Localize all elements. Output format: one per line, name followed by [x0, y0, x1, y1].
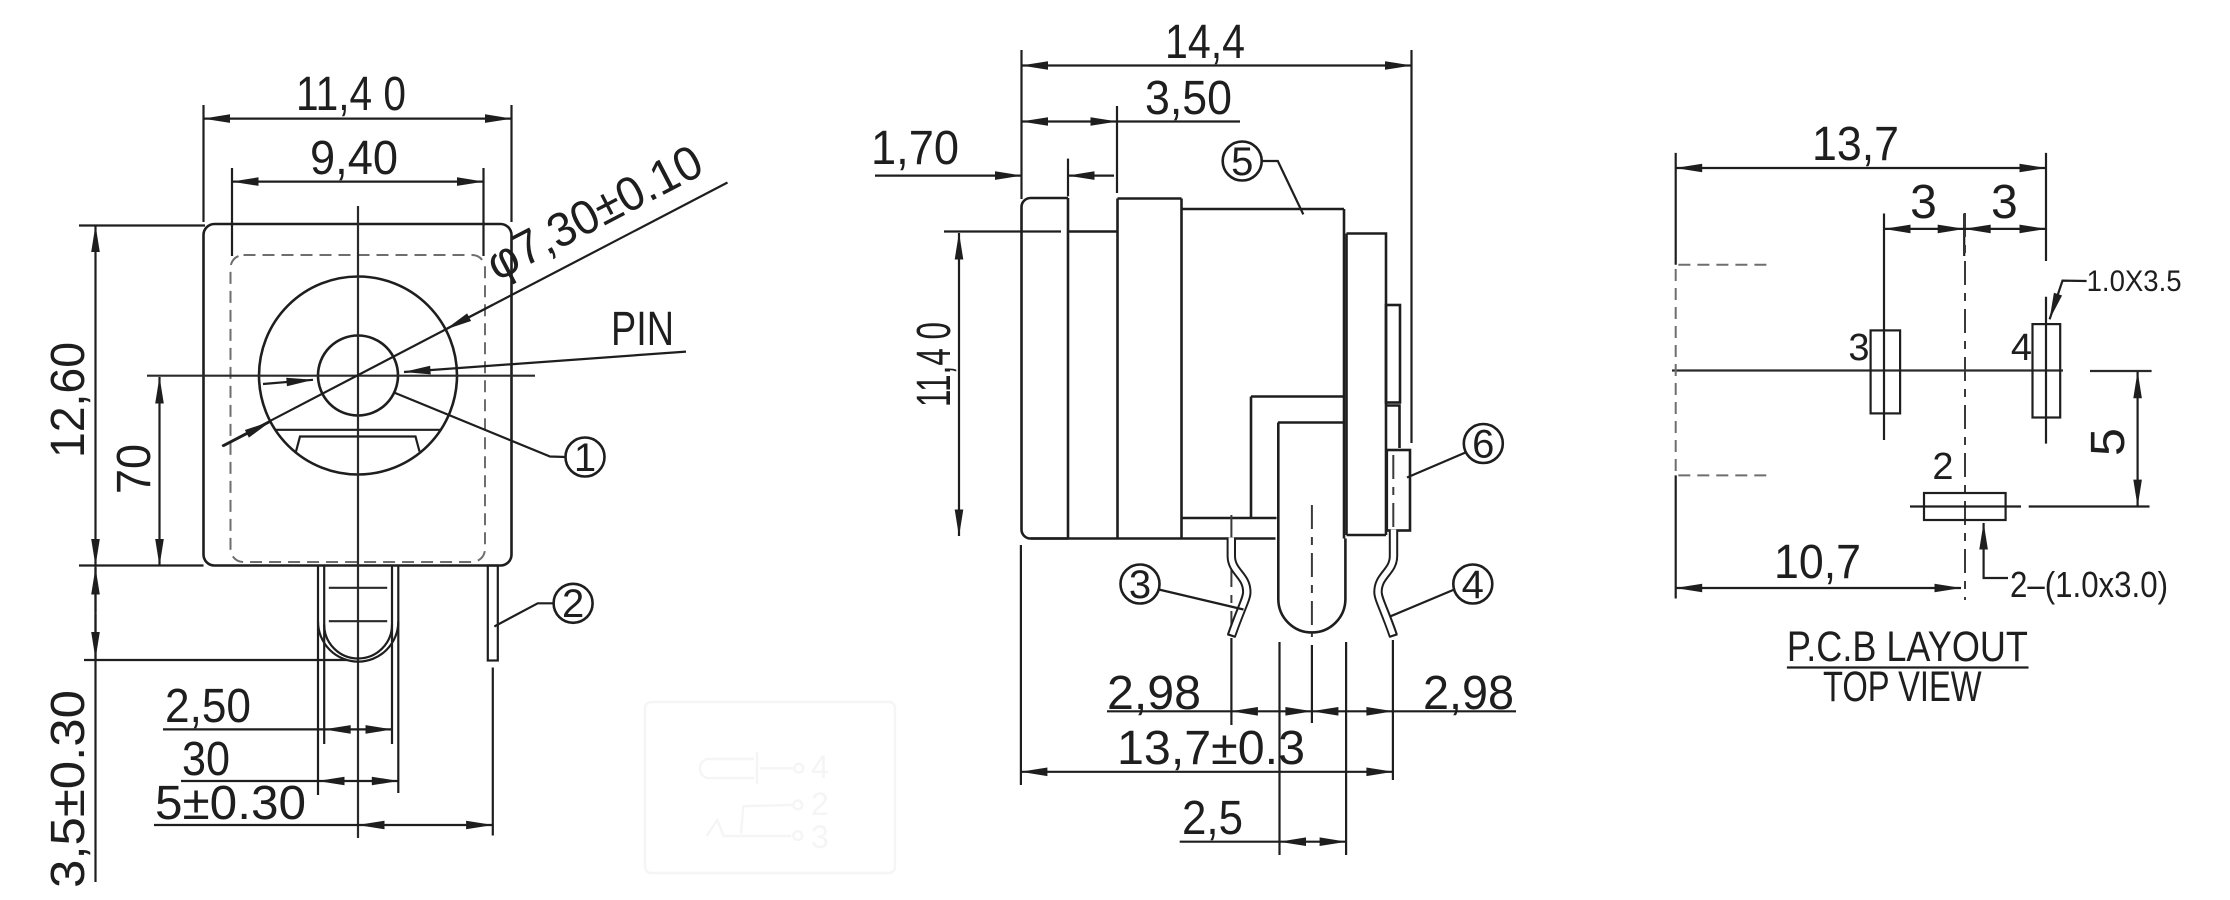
svg-text:2–(1.0x3.0): 2–(1.0x3.0): [2010, 564, 2168, 605]
dim 3,50 ext: [1116, 106, 1118, 193]
pad4 centerline lower: [2045, 297, 2047, 444]
dim 1,70 ext: [1067, 159, 1069, 197]
svg-text:5: 5: [2082, 428, 2135, 456]
main body right edge: [1343, 209, 1346, 539]
pad 2: [1924, 493, 2006, 520]
dim 2,5 ext right: [1345, 642, 1347, 855]
mid tick: [1963, 214, 1965, 257]
balloon 4: [1453, 565, 1492, 604]
front pin outer right side: [397, 566, 399, 794]
svg-text:TOP VIEW: TOP VIEW: [1823, 663, 1982, 711]
balloon 3 leader: [1159, 590, 1244, 610]
front pin inner left side: [323, 566, 325, 745]
svg-text:9,40: 9,40: [310, 132, 398, 185]
center pin right edge: [1344, 539, 1347, 600]
balloon 2 leader: [494, 603, 553, 626]
balloon 1: [566, 438, 605, 477]
block3 top: [1118, 197, 1182, 200]
dim 5 pcb ext: [2029, 505, 2150, 507]
front pin cross line 2: [329, 620, 387, 622]
center pin left edge: [1277, 423, 1280, 600]
callout 2-(1.0x3.0) leader: [1984, 523, 2008, 578]
svg-text:1: 1: [574, 436, 596, 480]
side flange outline: [1022, 198, 1069, 539]
dim 5 arrows: [358, 824, 493, 826]
pad3 centerline: [1883, 214, 1885, 441]
front pin inner arc: [324, 625, 392, 659]
faint ghost schematic watermark: [645, 702, 895, 873]
dim 10,7 line: [1676, 587, 1961, 589]
svg-text:2,5: 2,5: [1182, 792, 1243, 845]
balloon 5: [1223, 142, 1262, 181]
body inner bottom: [1182, 517, 1277, 520]
dim 13,7 line: [1021, 771, 1393, 773]
dim 2,50 leader: [163, 728, 324, 730]
dim 9,40 line: [232, 181, 484, 183]
dim 30 leader: [181, 780, 318, 782]
svg-text:2: 2: [562, 582, 584, 626]
body bottom line: [1031, 537, 1276, 540]
inner step vertical: [1250, 397, 1253, 519]
barrel circle: [259, 277, 457, 475]
block2 top: [1068, 230, 1118, 233]
front view body outline: [204, 224, 512, 566]
balloon 6: [1464, 424, 1503, 463]
dim 2,50 arrows: [324, 728, 392, 730]
dim 3,5 arrow up: [94, 568, 96, 612]
svg-text:5: 5: [1231, 140, 1253, 184]
balloon 2: [554, 584, 593, 623]
front pin outer arc: [318, 622, 398, 662]
svg-text:4: 4: [811, 749, 829, 785]
flange right edge: [1067, 198, 1070, 539]
center pin bottom arc: [1278, 599, 1345, 632]
dim 2,5 ext left: [1278, 642, 1280, 855]
svg-text:3,50: 3,50: [1145, 72, 1232, 125]
balloon 3: [1121, 565, 1160, 604]
pad2 centerline horizontal: [1910, 505, 2021, 507]
diameter arrow upper: [446, 305, 493, 330]
svg-text:3: 3: [811, 819, 829, 855]
block3 right edge: [1180, 199, 1183, 539]
svg-text:2: 2: [811, 786, 829, 822]
dim 2,98 left arrows: [1231, 710, 1312, 712]
dim 30 arrows: [318, 780, 398, 782]
dim 1,70 left arrow: [875, 175, 1022, 177]
svg-text:2,98: 2,98: [1107, 667, 1201, 720]
dim 3,5 arrow down: [94, 614, 96, 659]
svg-text:2: 2: [1932, 446, 1953, 488]
dim 5 leader: [154, 824, 358, 826]
dim 70 line: [158, 377, 160, 566]
dim 14,4 ext left: [1020, 50, 1022, 199]
dim 13,7 ext left: [1020, 545, 1022, 785]
pin 2 extension line: [492, 668, 494, 836]
pin3 dashed axis: [1230, 515, 1232, 630]
strip step line: [1386, 406, 1400, 449]
svg-text:5±0.30: 5±0.30: [155, 777, 306, 830]
dim 1,70 right arrow: [1068, 175, 1114, 177]
front pin outer left side: [317, 566, 319, 796]
dim 12,60 line: [94, 226, 96, 566]
svg-text:3: 3: [1910, 176, 1937, 229]
front pin cross line 1: [329, 587, 387, 589]
dim 3,50 leader: [1117, 120, 1240, 122]
svg-text:13,7: 13,7: [1812, 118, 1899, 171]
vertical centerline: [357, 206, 359, 838]
dim 11,40 side ext top: [944, 230, 1061, 232]
pcb dashed body outline: [1676, 265, 1767, 476]
dim 12,60 extension lines: [79, 224, 205, 226]
horizontal centerline: [147, 375, 535, 377]
main body top: [1182, 208, 1345, 211]
svg-text:1,70: 1,70: [871, 122, 959, 175]
svg-text:13,7±0.3: 13,7±0.3: [1117, 722, 1305, 775]
inner step lower: [1278, 421, 1344, 424]
svg-text:2,98: 2,98: [1423, 667, 1514, 720]
callout 1.0X3.5 leader: [2050, 281, 2087, 320]
pcb horizontal centerline: [1672, 369, 2063, 371]
part 6 rect: [1387, 450, 1410, 531]
inner step upper: [1251, 395, 1344, 398]
dim 2,5 arrows: [1280, 841, 1347, 843]
svg-text:4: 4: [2011, 327, 2032, 369]
pin3 ext line: [1230, 638, 1232, 725]
dim 5 pcb line: [2137, 372, 2139, 506]
svg-text:10,7: 10,7: [1774, 536, 1861, 589]
pin tip extension line: [84, 659, 347, 661]
svg-text:12,60: 12,60: [42, 342, 95, 458]
key slot: [296, 437, 420, 452]
svg-text:3: 3: [1991, 176, 2018, 229]
svg-text:3: 3: [1848, 327, 1869, 369]
pad 3: [1871, 330, 1901, 413]
contact strip: [1386, 305, 1400, 403]
front pin inner right side: [391, 566, 393, 745]
diameter leader line: [222, 183, 728, 447]
diameter arrow lower: [223, 422, 270, 447]
dim 13,7 pcb line: [1676, 167, 2046, 169]
block5 outline: [1347, 234, 1387, 536]
svg-text:1.0X3.5: 1.0X3.5: [2087, 265, 2182, 298]
PIN leader: [404, 352, 686, 372]
dim 14,4 ext right: [1410, 50, 1412, 443]
dim 3 left arrows: [1884, 228, 1964, 230]
dim 3,50 arrows: [1022, 120, 1118, 122]
dim 2,5 leader: [1180, 841, 1280, 843]
pin4 ext line: [1392, 640, 1394, 780]
svg-text:11,4 0: 11,4 0: [908, 322, 961, 407]
dim 3 right arrows: [1964, 228, 2046, 230]
part6 dashed axis: [1392, 455, 1394, 545]
pin 3 leg: [1231, 539, 1247, 636]
pcb left ext upper: [1675, 153, 1677, 265]
pad4 centerline upper: [2045, 153, 2047, 261]
pin 2: [488, 566, 498, 661]
PIN second arrow: [263, 380, 313, 384]
barrel chord: [276, 429, 441, 431]
balloon 5 leader: [1262, 161, 1304, 214]
svg-text:6: 6: [1472, 423, 1494, 467]
dim 11,40 extension lines: [202, 105, 204, 222]
center pin circle: [318, 336, 398, 416]
svg-text:11,4 0: 11,4 0: [296, 68, 406, 121]
dim 3,5 line lower: [94, 566, 96, 883]
svg-text:4: 4: [1462, 563, 1484, 607]
svg-text:3,5±0.30: 3,5±0.30: [42, 690, 95, 888]
pad 4: [2033, 324, 2061, 417]
dim 2,98 right leader: [1393, 710, 1516, 712]
pin 4 leg: [1378, 531, 1394, 636]
pad2 dashed centerline: [1964, 213, 1966, 600]
balloon 4 leader: [1391, 590, 1455, 617]
dim 14,4 line: [1022, 64, 1412, 66]
balloon 1 leader: [394, 393, 566, 458]
dim 11,40 side line: [958, 233, 960, 536]
dim 2,98 left leader: [1107, 710, 1231, 712]
pcb left ext lower: [1675, 475, 1677, 598]
balloon 6 leader: [1407, 453, 1466, 478]
svg-text:14,4: 14,4: [1165, 16, 1245, 69]
dim 2,98 right arrows: [1312, 710, 1393, 712]
center pin dashed axis: [1311, 505, 1313, 637]
dim 11,40 line: [204, 117, 512, 119]
svg-text:PIN: PIN: [611, 303, 674, 356]
svg-text:3: 3: [1129, 563, 1151, 607]
pin axis ext line: [1311, 645, 1313, 723]
svg-text:70: 70: [108, 444, 161, 494]
title underline: [1787, 666, 2029, 668]
svg-text:φ7,30±0.10: φ7,30±0.10: [478, 135, 712, 291]
block3 left edge: [1116, 199, 1119, 539]
svg-text:2,50: 2,50: [165, 680, 251, 733]
front view inner dashed outline: [231, 255, 486, 562]
dim 9,40 extension lines: [231, 168, 233, 256]
